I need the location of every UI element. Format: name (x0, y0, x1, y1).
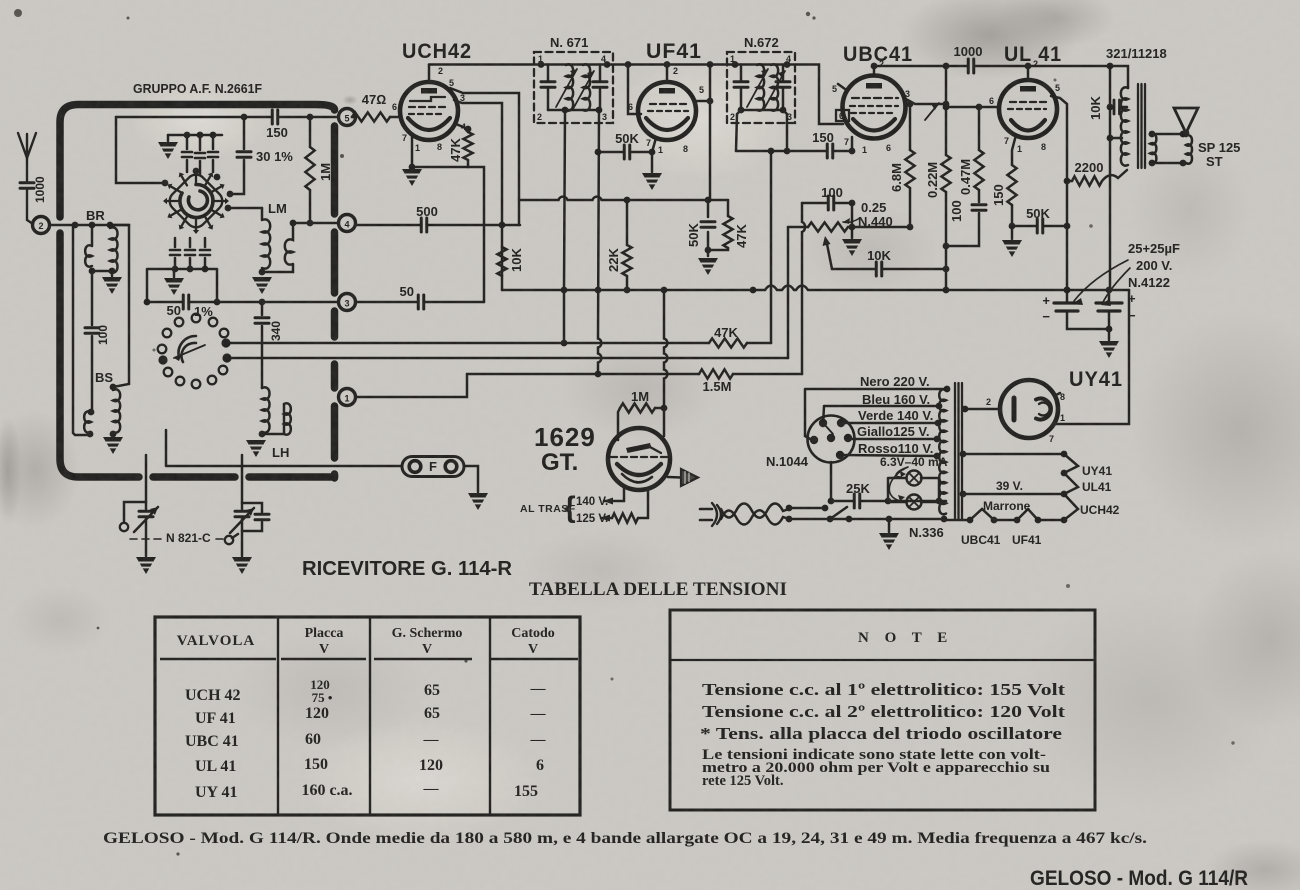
junction dots (B+ riser) (1107, 63, 1114, 70)
terminal 5 (339, 109, 356, 126)
ground (trimmer row) (167, 135, 170, 141)
capacitors under gang (3x) (175, 238, 205, 269)
wire diode line y151 (736, 137, 852, 151)
terminal 3 (339, 294, 356, 311)
ground (trimmer right) (232, 557, 252, 574)
wire UCH42 cathode to ground (412, 137, 468, 167)
wire UY41 cathode to B+ (1054, 290, 1129, 424)
capacitor 50 (418, 295, 424, 309)
transformer core (955, 383, 962, 519)
speaker cone (1174, 108, 1198, 133)
capacitor 100 (UBC41 grid) (802, 202, 852, 205)
resistor 1M (618, 408, 664, 440)
wire left drop from top line (116, 117, 165, 183)
trimmer capacitors (3x padder) (187, 135, 213, 175)
capacitor 50K (UL41) (1012, 225, 1067, 228)
wire UY41 plate (pin2) (963, 408, 1000, 411)
ground (gang) (173, 269, 176, 277)
ground (UL41) (1002, 240, 1022, 257)
junction dot (30 1%) (241, 114, 248, 121)
variable tuning capacitor (gang) (166, 171, 227, 232)
antenna (18, 133, 36, 224)
capacitor 340 (261, 302, 264, 388)
transformer core (1138, 84, 1145, 168)
capacitor 150 (diode) (827, 144, 833, 158)
wire B+ bus (502, 286, 1129, 291)
secondary + speaker SP125 (1150, 133, 1156, 164)
coil LH aux (284, 403, 291, 434)
wire UL41 grid (946, 106, 1000, 109)
wire UF41 pin5 riser (695, 65, 710, 201)
junction dots (gang caps) (172, 266, 179, 273)
wire gang to LM (228, 207, 262, 210)
resistor 1M (309, 117, 312, 223)
coil BS aux (84, 411, 91, 432)
wire terminal 3 line (147, 301, 338, 304)
indicator flag (668, 476, 681, 479)
junction dots (trimmer row) (184, 132, 191, 139)
resistor 47K (AVC line) (709, 338, 747, 347)
coil BR aux (antenna winding) (85, 225, 92, 267)
resistor 150 (UL41 cathode) (1012, 135, 1016, 239)
wire fuse to ground (464, 466, 478, 492)
ground (electrolytics) (1099, 341, 1119, 358)
junction dots (gang) (227, 191, 234, 198)
resistor 47K (screen feed) (708, 200, 728, 250)
NOTE box (670, 610, 1095, 810)
capacitor 50K (screen) (707, 200, 710, 256)
junction dots (B+ bus) (561, 287, 568, 294)
junction dots (terminal 3 line) (144, 299, 151, 306)
resistor 22K (626, 200, 629, 290)
capacitor 100 (BS chain) (91, 271, 94, 411)
junction dot (AVC) (499, 222, 506, 229)
switch (789, 507, 825, 510)
ground (LH) (246, 440, 266, 457)
wire terminal 4 row (356, 224, 520, 227)
power transformer N.336 primary (939, 389, 946, 514)
junction dot (AVC tap) (561, 340, 568, 347)
wire antenna down leg (73, 225, 88, 435)
electrolytic 25+25uF N.4122 (1067, 290, 1109, 340)
ground (fuse) (468, 493, 488, 510)
wire N671 pri bottom drop (598, 110, 601, 374)
terminal 1 (339, 389, 356, 406)
ground (trimmer left) (136, 557, 156, 574)
capacitor 50K (UF41 grid) (598, 151, 652, 154)
wire plate line (top long) (429, 65, 843, 125)
resistor 1.5M (699, 369, 733, 378)
ground (UF41) (642, 173, 662, 190)
trimmer N.821-C left (124, 455, 158, 556)
wire N672 bottom drops (736, 110, 787, 151)
ground (LM) (252, 277, 272, 294)
ground (screen) (698, 258, 718, 275)
capacitor 10K (1114, 100, 1120, 114)
ground (mains) (888, 519, 891, 532)
heater fan-out (1064, 454, 1078, 520)
voltage table frame (155, 617, 580, 815)
wire top inner line to terminal 5 (116, 116, 338, 119)
capacitor 150 (top line) (272, 110, 278, 124)
capacitor 1000 (antenna) (20, 183, 34, 189)
capacitor 50 1% (183, 295, 189, 309)
junction dots (1M) (307, 114, 314, 121)
wire band line B (227, 357, 788, 360)
wire UF41 cathode (652, 138, 656, 172)
resistor 2200 (1067, 180, 1072, 183)
wire pot riser (787, 227, 790, 358)
wire to BS (110, 225, 129, 387)
wire fuse line (166, 430, 402, 466)
capacitor 10K (876, 262, 882, 276)
capacitor 1000 (B+) (874, 65, 1110, 68)
resistor 10K (AVC) (497, 247, 506, 276)
capacitor 500 (421, 218, 427, 232)
junction dots (UBC41 plate) (943, 101, 950, 108)
wire grid riser (802, 203, 805, 374)
rotary wave switch (158, 314, 229, 389)
wire AVC riser (770, 151, 773, 343)
wire UCH42 pin5 (osc grid) (450, 88, 519, 225)
junction dots (screen line) (624, 197, 631, 204)
resistor 0.47M + capacitor 100 (946, 107, 979, 246)
heater chain bottom (944, 509, 1064, 520)
fuse F (402, 457, 464, 477)
heater wires to tubes (962, 453, 1064, 456)
wire UL41 plate drop (1051, 96, 1067, 290)
wire 125V + resistor (601, 517, 612, 520)
ground (pot) (842, 239, 862, 256)
wire UBC41 pin3 plate (904, 98, 946, 104)
output transformer primary (1110, 66, 1128, 88)
ground (UCH42) (402, 169, 422, 186)
ground (BS) (103, 437, 123, 454)
wire AVC line segment (467, 373, 699, 376)
socket N.1044 (808, 416, 855, 463)
wire trimmer row (168, 134, 222, 137)
resistor 47ohm (352, 116, 401, 119)
wire N671 sec bottom drop (564, 110, 565, 343)
wire terminal 2 line (50, 224, 130, 227)
wire UCH42 pin3 (454, 100, 502, 290)
coil LH (262, 387, 270, 432)
junction dot (UF41 grid) (649, 149, 656, 156)
capacitor 25K + heater feed (831, 462, 946, 501)
wire 1629 drop with hops (664, 290, 667, 436)
wire drop to UF41 grid (628, 65, 641, 115)
ground (BR) (111, 271, 114, 276)
box GRUPPO A.F. (rounded frame) (60, 105, 335, 479)
wire screen line y200 (519, 197, 728, 200)
terminal 4 (339, 215, 356, 232)
mains plug + cord (700, 509, 712, 520)
coil LM aux (262, 223, 293, 272)
wire 140V (604, 487, 624, 501)
terminal 2 (33, 217, 50, 234)
wire B+ riser (1109, 66, 1112, 290)
resistor 0.22M (945, 66, 948, 290)
wire terminal 1 line (356, 374, 467, 397)
resistor 6.8M (909, 104, 912, 227)
wire terminal 3 row (356, 301, 484, 304)
junction dots (diode line) (768, 148, 775, 155)
potentiometer 0.25 N.440 (788, 226, 910, 229)
dashed link (130, 538, 224, 540)
wire caps row to ground (147, 269, 217, 302)
trimmer N.821-C right (230, 455, 262, 556)
wiper arrow + 10K line (827, 244, 832, 269)
wire terminal 4 line (293, 222, 338, 225)
wire band line A (226, 342, 709, 345)
junction dots (heater chain) (967, 517, 974, 524)
resistor 47K (UCH42) (456, 124, 484, 302)
junction dots (speaker leads) (1149, 131, 1156, 138)
capacitor 30 1% (230, 117, 244, 194)
